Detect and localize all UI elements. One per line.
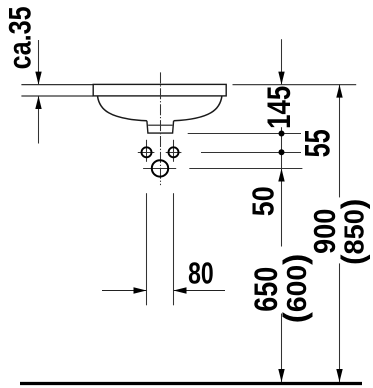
- svg-text:(850): (850): [334, 199, 370, 265]
- svg-text:ca.35: ca.35: [3, 6, 38, 69]
- svg-text:(600): (600): [278, 254, 314, 324]
- svg-text:55: 55: [299, 129, 338, 157]
- svg-text:145: 145: [261, 86, 297, 129]
- svg-text:900: 900: [308, 209, 342, 254]
- svg-text:650: 650: [249, 267, 285, 312]
- svg-text:80: 80: [188, 255, 214, 290]
- svg-text:50: 50: [247, 186, 281, 216]
